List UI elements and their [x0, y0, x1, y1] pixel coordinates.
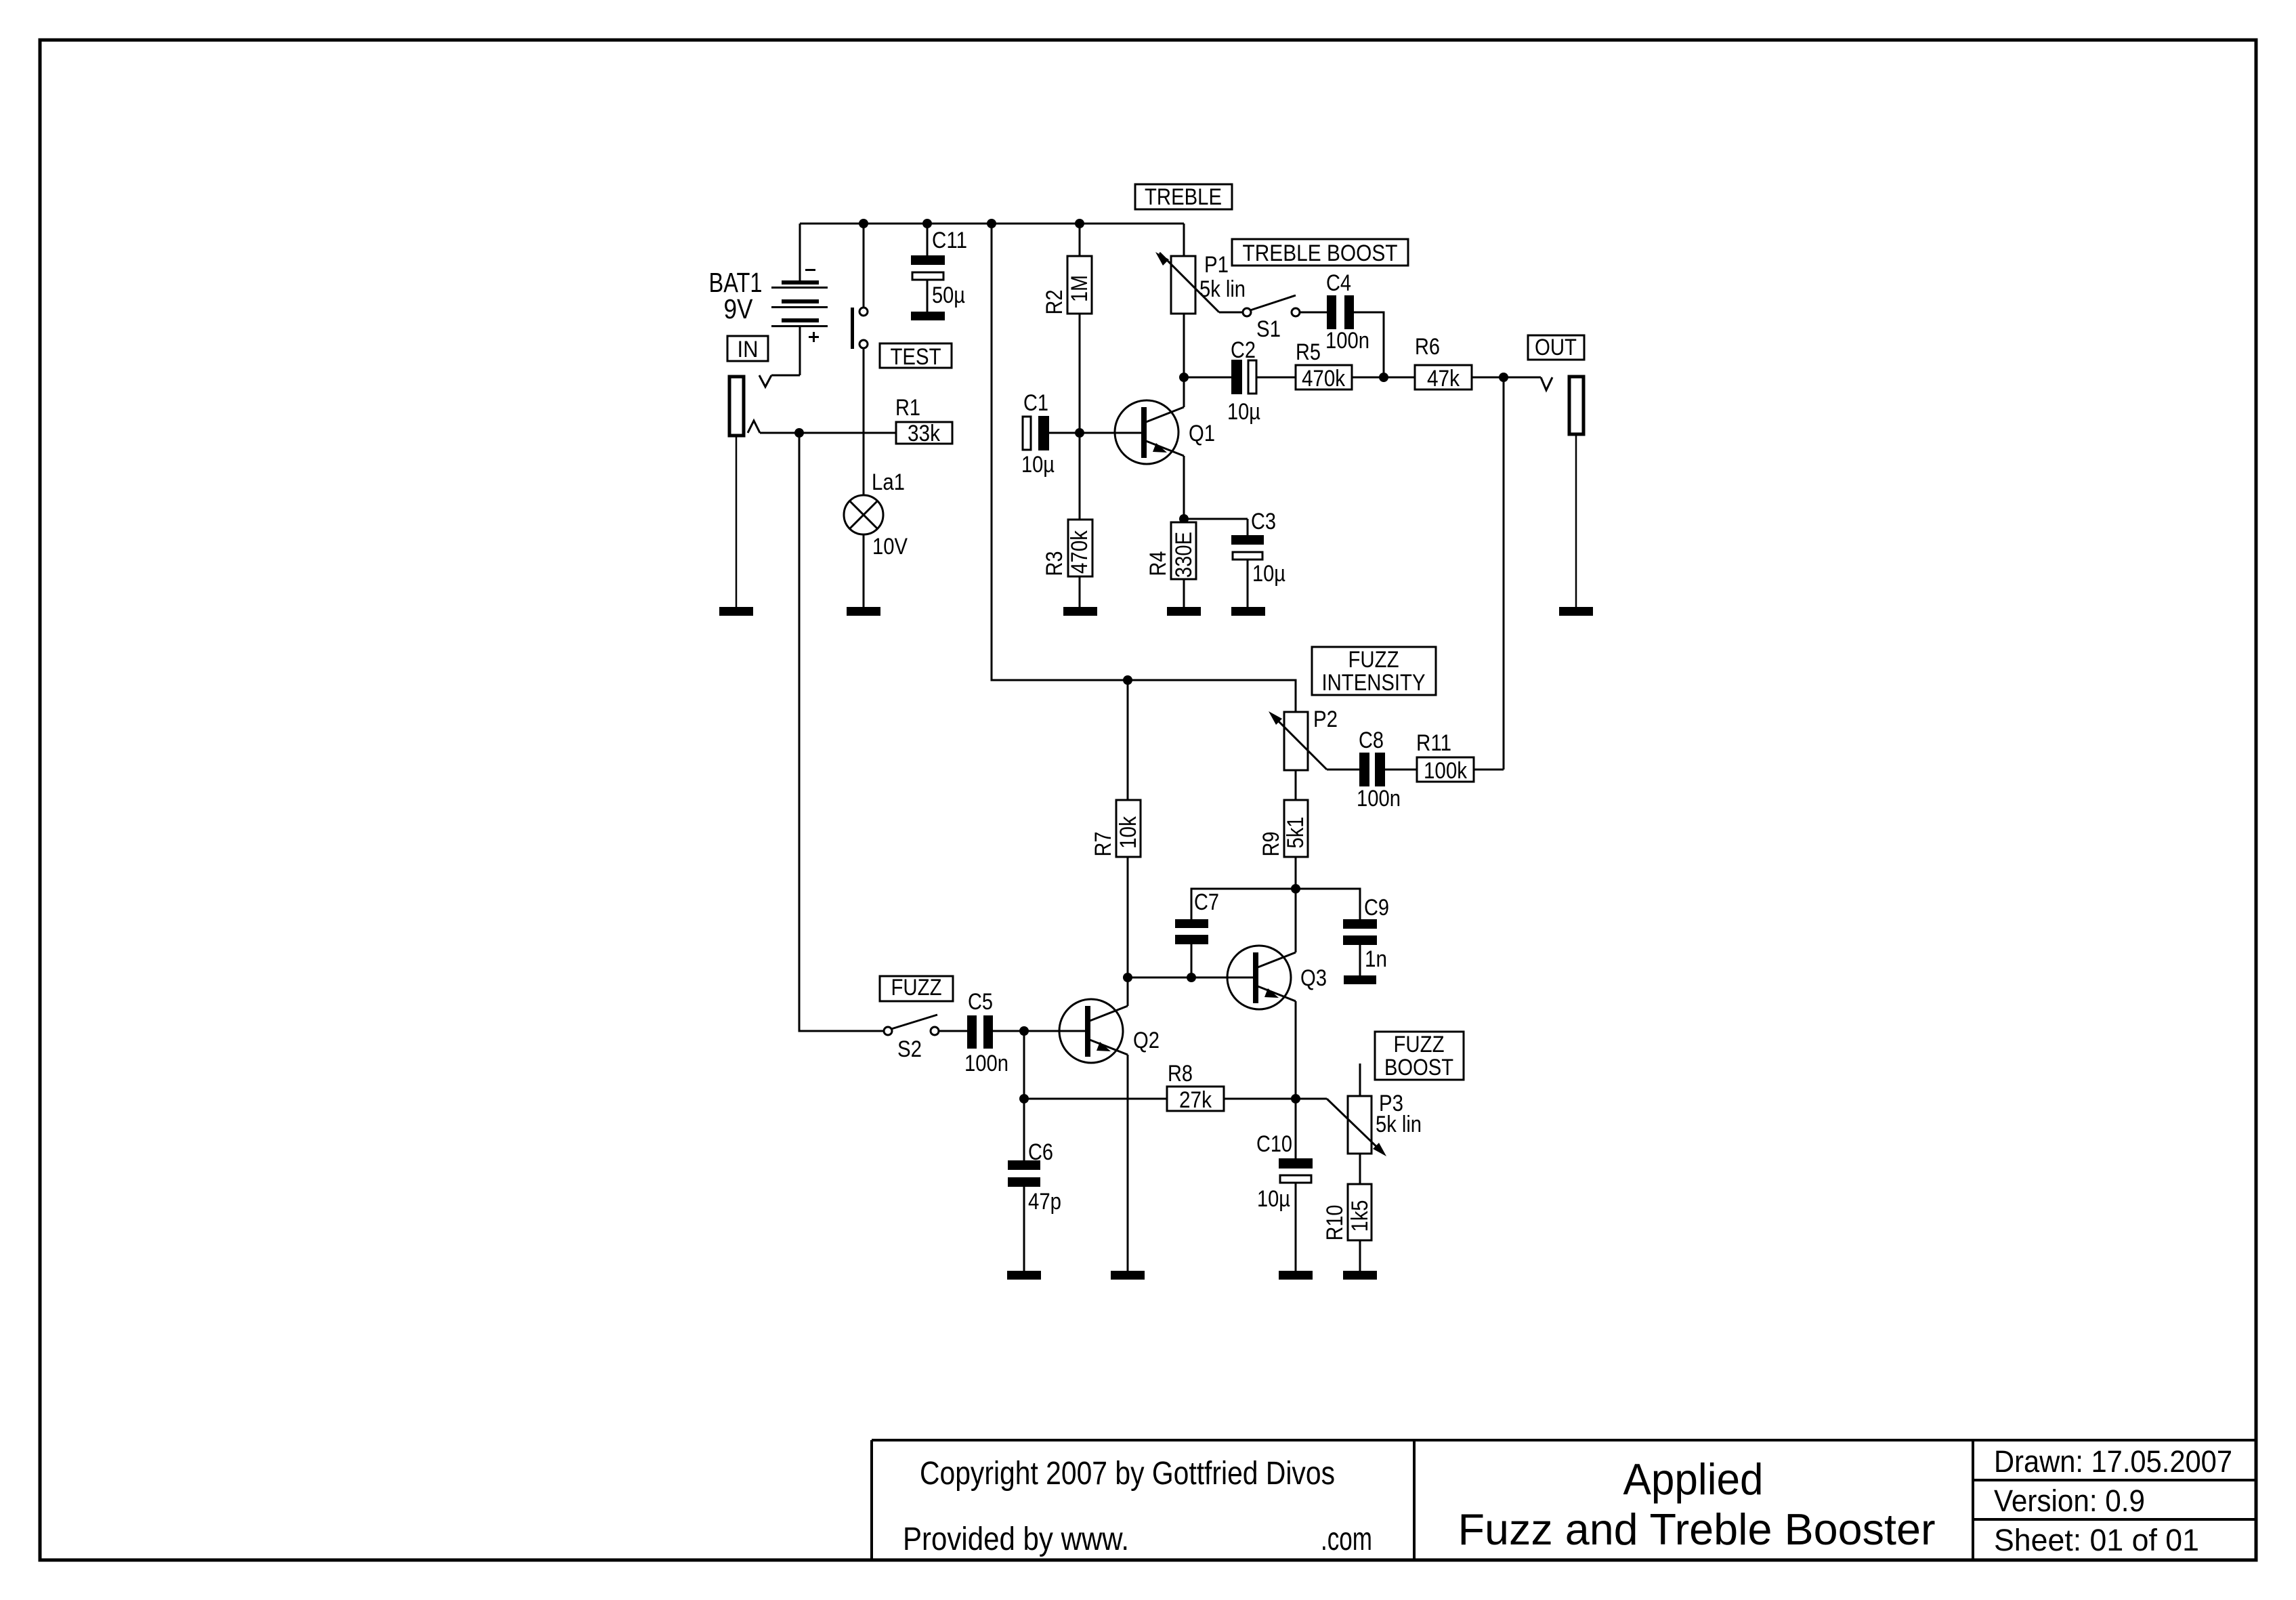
potentiometer P2 — [1269, 711, 1359, 800]
transistor Q3 — [1227, 889, 1296, 1099]
svg-text:C6: C6 — [1028, 1139, 1053, 1165]
svg-text:IN: IN — [738, 337, 759, 362]
switch S1 — [1219, 295, 1327, 316]
battery minus sign — [805, 269, 815, 271]
svg-text:R5: R5 — [1296, 339, 1321, 365]
svg-text:.com: .com — [1321, 1521, 1372, 1557]
svg-text:10µ: 10µ — [1227, 399, 1260, 425]
resistor R6 — [1415, 365, 1472, 390]
resistor R2 — [1067, 224, 1092, 433]
svg-text:470k: 470k — [1067, 530, 1092, 574]
ground R10 — [1343, 1271, 1377, 1280]
svg-text:R4: R4 — [1145, 551, 1171, 576]
svg-text:R9: R9 — [1258, 832, 1284, 857]
svg-text:27k: 27k — [1179, 1087, 1212, 1113]
ground Q2 emitter — [1111, 1271, 1145, 1280]
svg-text:Q2: Q2 — [1133, 1028, 1160, 1053]
ground R4 — [1167, 607, 1201, 616]
capacitor C5 — [967, 1015, 1085, 1049]
svg-text:33k: 33k — [908, 421, 941, 446]
wire base row Q2-collector to C7 to Q3 — [1128, 977, 1253, 979]
potentiometer P3 — [1327, 1064, 1386, 1184]
jack OUT tip chevron — [1541, 377, 1552, 390]
label box FUZZ INTENSITY — [1312, 647, 1436, 695]
svg-text:C8: C8 — [1359, 728, 1384, 753]
capacitor C11 — [911, 224, 945, 312]
wire R8 row left — [1024, 1098, 1167, 1100]
ground C11 — [911, 312, 945, 320]
battery ring chevron — [759, 375, 771, 387]
svg-text:R8: R8 — [1168, 1061, 1193, 1087]
svg-text:R3: R3 — [1042, 551, 1067, 576]
node Q1 emitter junction — [1179, 514, 1189, 524]
node C5-Q2 base junction — [1019, 1026, 1029, 1036]
svg-text:R6: R6 — [1415, 334, 1440, 360]
node rail-test junction — [859, 219, 868, 228]
svg-text:10k: 10k — [1115, 816, 1141, 849]
svg-text:C9: C9 — [1364, 895, 1389, 921]
label box OUT — [1528, 335, 1584, 360]
ground C10 — [1279, 1271, 1313, 1280]
node C4 junction — [1379, 373, 1388, 382]
svg-text:Fuzz and Treble Booster: Fuzz and Treble Booster — [1458, 1504, 1936, 1554]
capacitor C2 — [1231, 360, 1296, 394]
ground C9 — [1344, 975, 1376, 984]
svg-text:C5: C5 — [968, 989, 993, 1015]
resistor R10 — [1348, 1184, 1372, 1271]
svg-text:Sheet: 01 of 01: Sheet: 01 of 01 — [1994, 1523, 2199, 1557]
resistor R9 — [1284, 800, 1308, 889]
node rail-fuzzfeed junction — [987, 219, 996, 228]
ground R3 — [1063, 607, 1097, 616]
svg-text:5k lin: 5k lin — [1199, 276, 1246, 302]
ground OUT jack — [1559, 607, 1593, 616]
svg-text:OUT: OUT — [1535, 335, 1577, 360]
svg-text:FUZZ: FUZZ — [1348, 647, 1399, 673]
svg-text:R1: R1 — [895, 395, 920, 421]
node rail-C11 junction — [922, 219, 932, 228]
svg-text:FUZZ: FUZZ — [1394, 1032, 1445, 1057]
svg-text:9V: 9V — [724, 293, 754, 324]
node base row C7 junction — [1187, 973, 1196, 982]
wire C1 to base node — [1049, 432, 1141, 434]
svg-text:R2: R2 — [1042, 290, 1067, 315]
ground C6 — [1007, 1271, 1041, 1280]
battery BAT1 — [771, 224, 828, 375]
wire output down to R11 — [1503, 377, 1505, 770]
svg-text:50µ: 50µ — [932, 282, 965, 308]
svg-text:10µ: 10µ — [1021, 452, 1055, 478]
wire emitter to C3 — [1184, 518, 1248, 520]
resistor R3 — [1068, 433, 1092, 607]
node fuzz-feed R7 junction — [1123, 675, 1132, 685]
node base row left junction — [1123, 973, 1132, 982]
node Q3 emitter junction — [1291, 1094, 1300, 1103]
svg-text:470k: 470k — [1302, 366, 1346, 392]
wire power rail — [800, 223, 1184, 225]
capacitor C6 — [1008, 1099, 1040, 1271]
wire collector row — [1184, 377, 1231, 379]
ground C3 — [1231, 607, 1265, 616]
svg-text:10µ: 10µ — [1257, 1186, 1290, 1212]
battery plus sign — [809, 332, 819, 342]
capacitor C1 — [1023, 416, 1049, 450]
wire C5 node down to R8 node — [1023, 1031, 1025, 1099]
label box TEST — [880, 343, 952, 368]
svg-text:Q1: Q1 — [1189, 421, 1215, 446]
svg-text:100k: 100k — [1424, 758, 1468, 784]
wire rail feed down to fuzz intensity row — [992, 224, 1296, 712]
svg-text:TREBLE BOOST: TREBLE BOOST — [1243, 240, 1398, 266]
svg-text:Applied: Applied — [1623, 1454, 1764, 1504]
label box TREBLE BOOST — [1232, 239, 1408, 266]
switch TEST pushbutton — [851, 224, 868, 495]
node input junction — [794, 428, 804, 438]
svg-text:TREBLE: TREBLE — [1145, 184, 1222, 210]
svg-text:1n: 1n — [1365, 946, 1387, 972]
resistor R5 — [1296, 365, 1352, 390]
capacitor C9 — [1343, 919, 1377, 975]
svg-text:5k1: 5k1 — [1283, 817, 1309, 849]
svg-text:100n: 100n — [1357, 786, 1401, 812]
label box FUZZ BOOST — [1375, 1032, 1464, 1080]
label box TREBLE — [1135, 184, 1232, 209]
svg-text:BOOST: BOOST — [1384, 1055, 1453, 1080]
svg-text:C2: C2 — [1231, 337, 1256, 363]
wire R6 to OUT — [1472, 377, 1541, 379]
lamp La1 — [844, 495, 883, 607]
svg-text:C10: C10 — [1256, 1131, 1292, 1157]
svg-text:S2: S2 — [897, 1036, 922, 1062]
capacitor C3 — [1231, 519, 1264, 607]
capacitor C8 — [1359, 753, 1417, 786]
jack IN body — [729, 377, 744, 436]
wire collector row to C9 — [1296, 889, 1360, 919]
capacitor C7 — [1175, 919, 1208, 977]
svg-text:Copyright 2007 by Gottfried Di: Copyright 2007 by Gottfried Divos — [920, 1456, 1335, 1492]
wire IN sleeve to ground — [736, 436, 738, 607]
svg-text:C11: C11 — [932, 228, 967, 253]
svg-text:100n: 100n — [1325, 328, 1369, 354]
wire input down to fuzz switch — [799, 433, 884, 1031]
svg-text:C4: C4 — [1326, 270, 1351, 296]
label box FUZZ — [880, 976, 953, 1001]
svg-text:47p: 47p — [1028, 1189, 1061, 1215]
resistor R7 — [1116, 680, 1141, 977]
svg-text:10V: 10V — [872, 534, 908, 560]
capacitor C4 — [1327, 295, 1384, 377]
resistor R8 — [1167, 1087, 1224, 1111]
wire R11 to output node — [1474, 769, 1504, 771]
resistor R1 — [896, 422, 952, 444]
svg-text:10µ: 10µ — [1252, 561, 1285, 587]
svg-text:1M: 1M — [1067, 275, 1092, 302]
node Q1 collector junction — [1179, 373, 1189, 382]
wire collector row to C7 — [1191, 889, 1296, 919]
node rail-R2 junction — [1075, 219, 1084, 228]
svg-text:INTENSITY: INTENSITY — [1322, 670, 1426, 696]
svg-text:R11: R11 — [1416, 730, 1451, 756]
transistor Q2 — [1059, 977, 1128, 1271]
wire input node — [760, 432, 896, 434]
svg-text:S1: S1 — [1256, 316, 1281, 342]
svg-text:R7: R7 — [1090, 832, 1116, 857]
potentiometer P1 — [1155, 224, 1219, 377]
title block outline — [872, 1440, 2255, 1559]
svg-text:C7: C7 — [1194, 889, 1219, 915]
switch S2 — [884, 1015, 967, 1035]
wire OUT sleeve to ground — [1575, 434, 1577, 607]
wire R5 to R6 — [1352, 377, 1415, 379]
node Q3 collector junction — [1291, 884, 1300, 893]
svg-text:Version: 0.9: Version: 0.9 — [1994, 1483, 2145, 1518]
svg-text:Provided by www.: Provided by www. — [903, 1521, 1129, 1557]
node Q1 base junction — [1075, 428, 1084, 438]
svg-text:FUZZ: FUZZ — [891, 975, 942, 1001]
jack OUT body — [1569, 377, 1583, 434]
node output junction — [1499, 373, 1508, 382]
resistor R11 — [1417, 757, 1474, 782]
svg-text:La1: La1 — [872, 469, 905, 495]
svg-text:P2: P2 — [1313, 707, 1338, 732]
ground IN jack — [719, 607, 753, 616]
svg-text:Drawn: 17.05.2007: Drawn: 17.05.2007 — [1994, 1444, 2232, 1479]
transistor Q1 — [1115, 377, 1184, 519]
svg-text:C3: C3 — [1251, 509, 1276, 534]
svg-text:C1: C1 — [1023, 390, 1048, 416]
svg-text:P1: P1 — [1204, 252, 1229, 278]
resistor R4 — [1171, 522, 1196, 607]
wire R8 row right — [1224, 1098, 1327, 1100]
ground lamp — [847, 607, 880, 616]
svg-text:1k5: 1k5 — [1347, 1200, 1373, 1232]
node R8-C6 junction — [1019, 1094, 1029, 1103]
label box IN — [727, 336, 768, 361]
svg-text:330E: 330E — [1171, 532, 1197, 578]
jack IN tip chevron — [748, 421, 760, 433]
svg-text:100n: 100n — [964, 1051, 1008, 1076]
capacitor C10 — [1279, 1099, 1313, 1271]
svg-text:TEST: TEST — [891, 344, 941, 370]
svg-text:Q3: Q3 — [1300, 965, 1327, 991]
svg-text:47k: 47k — [1427, 366, 1460, 392]
svg-text:R10: R10 — [1322, 1205, 1348, 1241]
svg-text:5k lin: 5k lin — [1376, 1112, 1422, 1137]
